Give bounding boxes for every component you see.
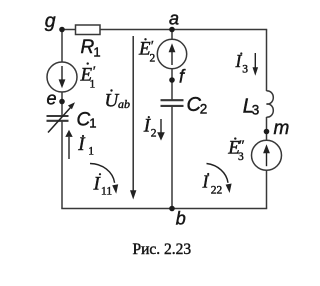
current I1 arrow (up)	[65, 130, 72, 159]
source E2' circle	[157, 39, 186, 68]
wire L3 to E3 source	[266, 117, 268, 141]
node f junction dot	[169, 77, 175, 83]
svg-text:2: 2	[150, 52, 156, 64]
loop current I22 arc arrow	[207, 164, 232, 194]
label E3'' (dot, double prime, subscript 3)	[227, 137, 244, 162]
svg-text:f: f	[179, 67, 186, 87]
label U_ab voltage (dot, subscript ab)	[105, 89, 131, 111]
voltage U_ab arrow (a to b)	[130, 36, 136, 200]
label E2' (dot, prime, subscript 2)	[138, 38, 156, 64]
svg-text:R: R	[81, 37, 95, 58]
node g junction dot	[59, 27, 65, 33]
capacitor C1 variable adjustment arrow	[48, 102, 75, 132]
node a junction dot	[169, 27, 175, 33]
wire node a down to E2'	[171, 30, 173, 40]
source E3'' internal arrow (upward)	[263, 144, 270, 166]
label E1' (dot, prime, subscript 1)	[80, 62, 97, 90]
node m junction dot	[264, 129, 270, 135]
bottom wire left corner to node b	[61, 208, 172, 210]
label I11 loop current (dot, subscript 11)	[93, 173, 113, 197]
svg-text:2: 2	[200, 102, 208, 117]
svg-text:3: 3	[238, 151, 244, 163]
capacitor C2 plates	[161, 100, 184, 106]
svg-text:ab: ab	[118, 97, 130, 111]
label I3 (dot, subscript 3)	[235, 51, 249, 76]
svg-text:2: 2	[151, 128, 157, 140]
wire g down to E1'	[61, 30, 63, 63]
svg-text:3: 3	[242, 63, 248, 75]
svg-text:11: 11	[101, 186, 112, 198]
wire node e to C1	[61, 92, 63, 115]
bottom wire node b to right corner	[172, 208, 267, 210]
wire E3 to bottom-right corner	[266, 170, 268, 208]
label I22 loop current (dot, subscript 22)	[202, 172, 223, 197]
left wire bottom corner up to C1	[61, 122, 63, 209]
current I3 arrow (down)	[253, 53, 259, 76]
wire C2 down to node b	[171, 106, 173, 209]
resistor R1	[76, 25, 101, 35]
svg-text:I: I	[77, 134, 86, 155]
svg-text:′: ′	[92, 65, 96, 80]
node e junction dot	[59, 99, 65, 105]
svg-text:m: m	[274, 118, 290, 139]
svg-text:g: g	[45, 10, 56, 32]
wire R1 to node a	[100, 29, 172, 31]
svg-text:1: 1	[88, 145, 94, 157]
wire node a to top-right corner	[172, 29, 267, 31]
inductor L3	[267, 91, 274, 117]
capacitor C1 plates	[47, 116, 69, 121]
current I2 arrow (down)	[157, 119, 165, 141]
node b junction dot	[169, 206, 175, 212]
svg-text:1: 1	[93, 44, 100, 59]
svg-text:e: e	[47, 89, 57, 109]
loop current I11 arc arrow	[90, 164, 118, 194]
svg-text:Рис. 2.23: Рис. 2.23	[133, 241, 192, 258]
svg-text:22: 22	[211, 185, 223, 197]
svg-text:b: b	[176, 209, 186, 229]
source E1' internal arrow (downward)	[59, 66, 66, 88]
label I2 (dot, subscript 2)	[143, 116, 157, 140]
source E3'' circle	[252, 140, 282, 170]
svg-text:1: 1	[90, 78, 96, 90]
wire E2' to C2 through node f	[171, 69, 173, 100]
label I1 (dot, subscript 1)	[77, 134, 94, 157]
svg-text:3: 3	[252, 103, 260, 118]
svg-text:1: 1	[89, 116, 96, 131]
wire g to R1	[62, 29, 76, 31]
svg-text:a: a	[169, 9, 179, 29]
wire top-right corner down to L3	[266, 30, 268, 92]
source E1' circle	[47, 62, 77, 92]
source E2' internal arrow (upward)	[169, 43, 176, 65]
